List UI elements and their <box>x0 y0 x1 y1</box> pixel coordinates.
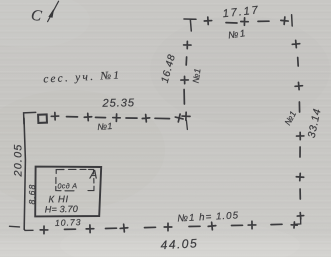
fence boundary middle vertical segment (16.48) <box>181 41 191 129</box>
svg-text:25.35: 25.35 <box>101 97 135 110</box>
svg-text:44.05: 44.05 <box>160 236 198 252</box>
fence boundary NW segment (25.35) <box>24 112 184 124</box>
square post marker <box>38 114 47 122</box>
svg-text:20.05: 20.05 <box>13 143 25 177</box>
building inner dashed outline <box>56 169 94 190</box>
fence boundary right segment (33.14) <box>291 15 304 228</box>
fence boundary bottom segment (44.05) <box>40 221 282 234</box>
svg-text:№1: №1 <box>191 68 203 84</box>
north arrow <box>48 1 59 21</box>
svg-text:8.68: 8.68 <box>27 184 37 205</box>
svg-text:Н= 3.70: Н= 3.70 <box>45 204 79 215</box>
left boundary line (20.05) <box>10 118 34 230</box>
building outline <box>35 167 101 217</box>
svg-text:А: А <box>89 170 98 182</box>
fence boundary top segment (17.17) <box>184 17 289 31</box>
svg-text:№1: №1 <box>97 121 113 132</box>
svg-text:0сд А: 0сд А <box>57 181 77 190</box>
svg-text:10.73: 10.73 <box>55 217 82 228</box>
